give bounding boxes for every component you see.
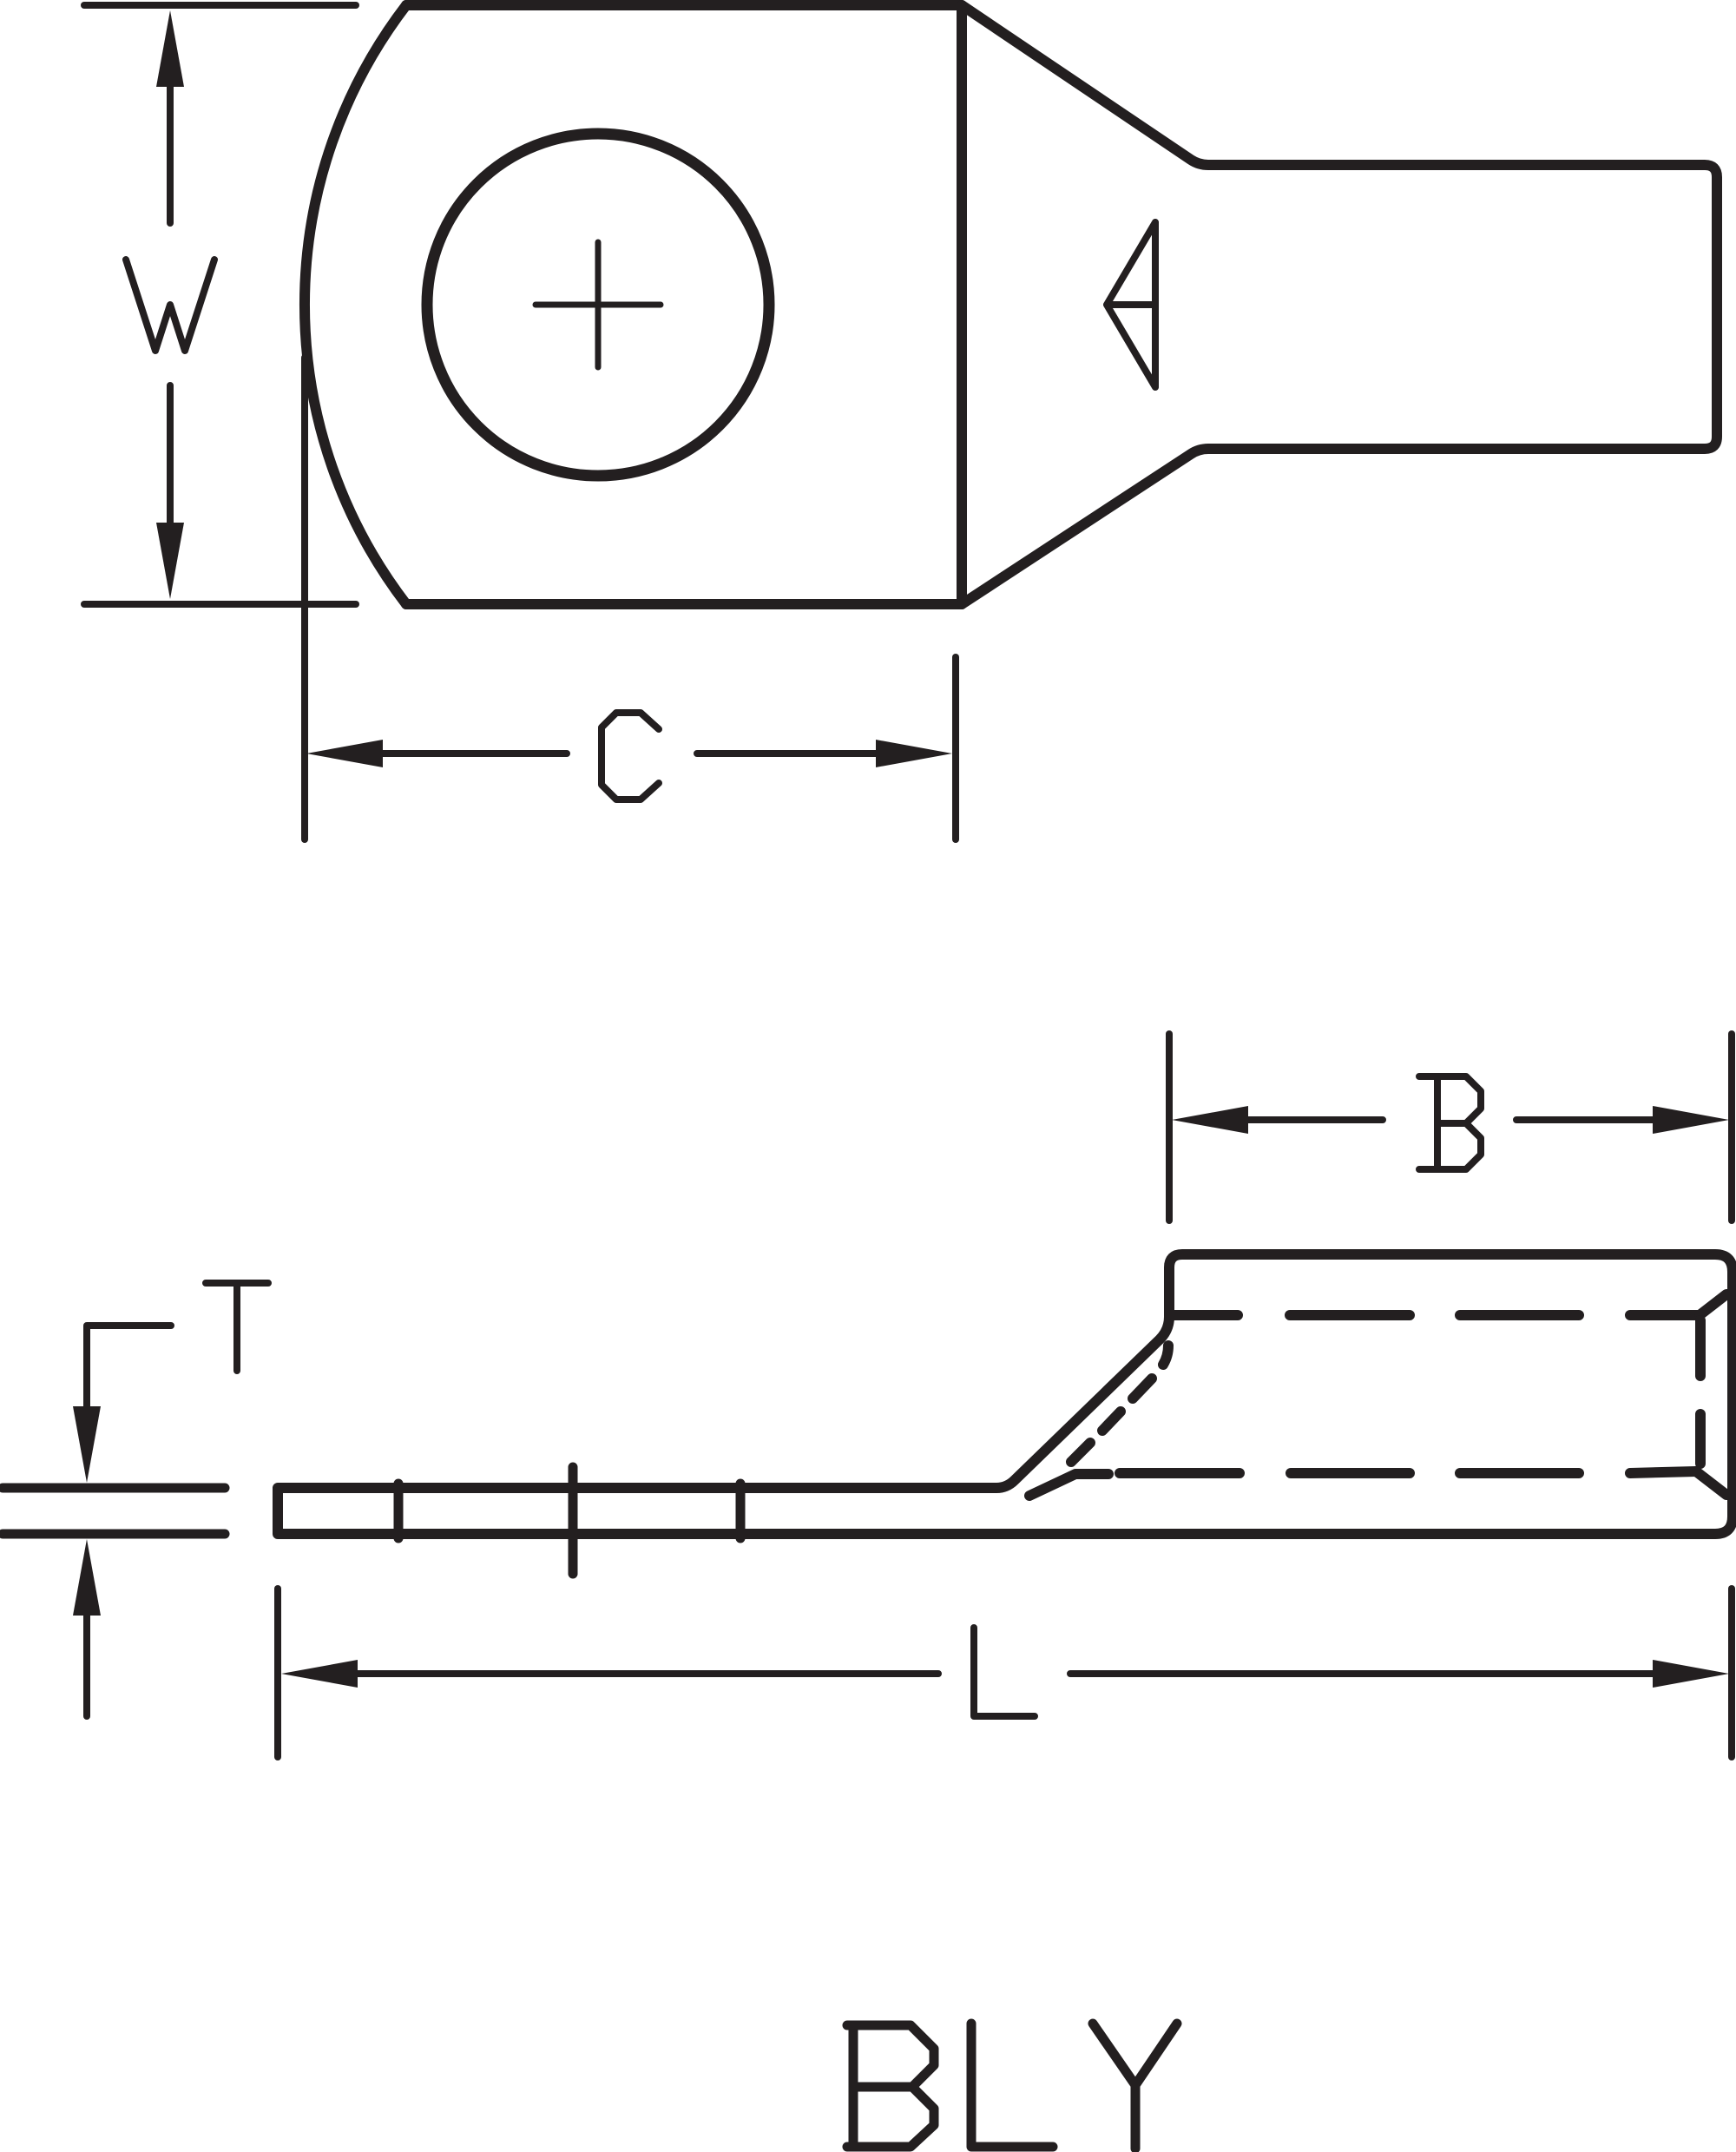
letter W label <box>126 260 214 351</box>
hidden line: bore top (dashed) <box>1171 1310 1700 1320</box>
C dimension line with gap for label <box>380 750 878 757</box>
barrel flare mouth symbol (triangle pointing left) <box>1107 222 1155 387</box>
side view: lug tongue, transition slope and crimp barrel outline <box>278 1254 1733 1534</box>
T dimension bottom extension line <box>3 1530 225 1539</box>
hole circle in pad <box>427 134 769 476</box>
W dimension arrowhead down <box>156 523 184 599</box>
letter L label <box>974 1628 1035 1716</box>
L dimension left extension line <box>274 1589 281 1757</box>
part number text BLY: letter Y <box>1093 2024 1177 2149</box>
T dimension arrowhead down <box>73 1406 101 1483</box>
hidden line: bore end chamfer top diagonal <box>1700 1294 1726 1315</box>
top view: lug pad outline with rounded left end and taper to barrel <box>305 5 1717 604</box>
letter B label <box>1419 1076 1481 1169</box>
hole centerline crosshair <box>536 242 661 367</box>
L dimension arrowhead left <box>281 1660 358 1688</box>
B dimension arrowhead right <box>1653 1106 1729 1134</box>
B dimension arrowhead left <box>1172 1106 1248 1134</box>
B dimension line with gap for label <box>1246 1116 1655 1123</box>
hidden line: bore end chamfer bottom diagonal <box>1696 1471 1726 1495</box>
C dimension arrowhead left <box>306 740 383 767</box>
T dimension lower stem <box>83 1614 90 1716</box>
L dimension line with gap for label <box>355 1670 1655 1677</box>
part number text BLY: letter L <box>971 2024 1053 2147</box>
T dimension top extension line <box>3 1484 225 1493</box>
hidden line: bore bottom (dashed) <box>1120 1471 1696 1473</box>
visible flare mouth lower diagonal <box>1029 1474 1108 1496</box>
C dimension arrowhead right <box>876 740 952 767</box>
part number text BLY: letter B <box>847 2025 934 2147</box>
W dimension arrowhead up <box>156 10 184 87</box>
tongue tick mark 3 <box>736 1484 746 1538</box>
hidden line: flare mouth diagonal (dashed) <box>1071 1346 1168 1462</box>
W dimension top extension line <box>84 2 356 9</box>
T dimension leader elbow <box>87 1326 171 1408</box>
C dimension left extension line <box>301 358 308 839</box>
T dimension arrowhead up <box>73 1539 101 1616</box>
letter T label <box>206 1283 268 1371</box>
L dimension right extension line <box>1728 1589 1735 1757</box>
W dimension bottom extension line <box>84 601 356 608</box>
tongue centerline tick 2 <box>569 1467 578 1574</box>
L dimension arrowhead right <box>1653 1660 1729 1688</box>
C dimension right extension line <box>952 657 959 839</box>
letter C label <box>602 713 659 800</box>
B dimension left extension line <box>1166 1034 1173 1221</box>
B dimension right extension line <box>1728 1034 1735 1221</box>
tongue tick mark 1 <box>394 1484 404 1538</box>
hidden line: bore end wall lower segment <box>1695 1414 1706 1464</box>
W dimension line (vertical, interrupted by label) <box>167 85 174 524</box>
hidden line: bore end wall upper segment <box>1695 1320 1706 1376</box>
